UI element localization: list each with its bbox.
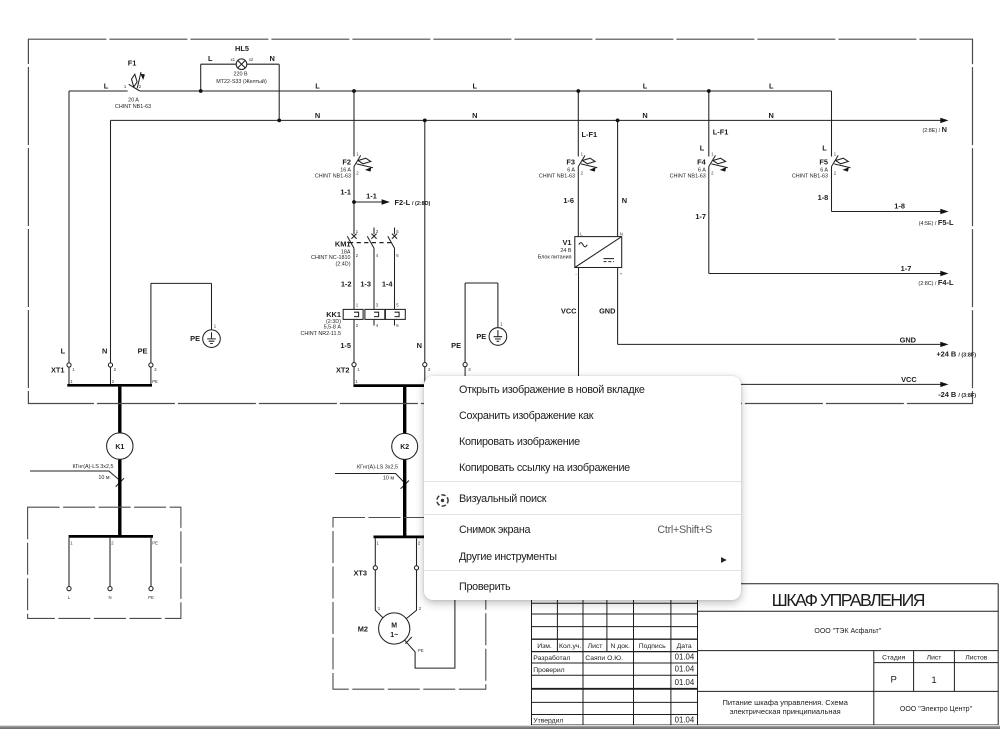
svg-text:6 A: 6 A [698, 167, 706, 173]
svg-text:2: 2 [711, 170, 714, 175]
svg-text:PE: PE [451, 341, 461, 350]
svg-text:3: 3 [376, 303, 379, 308]
svg-text:3: 3 [468, 367, 471, 372]
svg-text:L: L [643, 82, 648, 91]
svg-text:L: L [61, 347, 66, 356]
svg-text:1-7: 1-7 [901, 264, 912, 273]
svg-text:K2: K2 [400, 444, 409, 451]
svg-text:KK1: KK1 [326, 310, 341, 319]
svg-text:ООО "ТЭК Асфальт": ООО "ТЭК Асфальт" [814, 628, 881, 635]
svg-text:(2:8C) / F4-L: (2:8C) / F4-L [918, 278, 954, 287]
svg-text:PE: PE [148, 595, 154, 600]
svg-text:-24 В / (3:8F): -24 В / (3:8F) [938, 390, 976, 399]
svg-text:20 A: 20 A [128, 98, 139, 104]
svg-text:ШКАФ УПРАВЛЕНИЯ: ШКАФ УПРАВЛЕНИЯ [772, 590, 925, 610]
svg-text:1: 1 [356, 229, 359, 234]
svg-text:CHINT NB1-63: CHINT NB1-63 [115, 104, 151, 110]
svg-text:2: 2 [581, 170, 584, 175]
svg-text:F3: F3 [566, 157, 575, 166]
svg-text:x2: x2 [249, 57, 254, 62]
svg-text:Проверил: Проверил [533, 667, 564, 674]
svg-text:5: 5 [396, 303, 399, 308]
svg-text:L: L [580, 232, 583, 237]
svg-text:Блок питания: Блок питания [538, 255, 572, 261]
svg-text:N: N [315, 111, 320, 120]
svg-text:(2:8E) / N: (2:8E) / N [922, 125, 947, 134]
svg-text:L: L [208, 54, 213, 63]
svg-text:5: 5 [396, 229, 399, 234]
svg-text:2: 2 [356, 253, 359, 258]
svg-text:N: N [417, 341, 422, 350]
svg-text:1: 1 [500, 322, 503, 327]
svg-text:1: 1 [357, 367, 360, 372]
svg-text:1-2: 1-2 [341, 280, 352, 289]
svg-text:L-F1: L-F1 [582, 130, 598, 139]
svg-text:2: 2 [356, 170, 359, 175]
svg-text:F1: F1 [128, 59, 137, 68]
svg-text:PE: PE [138, 347, 148, 356]
svg-text:L: L [769, 82, 774, 91]
svg-text:GND: GND [900, 335, 917, 344]
svg-text:1: 1 [581, 151, 584, 156]
svg-text:1: 1 [214, 324, 217, 329]
svg-text:(4:5E) / F5-L: (4:5E) / F5-L [919, 218, 954, 227]
svg-text:3: 3 [154, 367, 157, 372]
svg-text:1: 1 [356, 303, 359, 308]
svg-text:6: 6 [396, 253, 399, 258]
svg-text:2: 2 [418, 540, 421, 545]
svg-text:10 м: 10 м [98, 475, 109, 481]
svg-text:4: 4 [376, 323, 379, 328]
svg-text:+: + [620, 271, 623, 276]
svg-text:L: L [473, 82, 478, 91]
svg-text:220 В: 220 В [233, 72, 247, 78]
svg-text:PE: PE [418, 648, 424, 653]
svg-text:Лист: Лист [927, 655, 942, 662]
svg-text:PE: PE [152, 379, 158, 384]
svg-text:1: 1 [70, 379, 73, 384]
svg-text:-: - [575, 271, 577, 276]
svg-text:N: N [620, 232, 623, 237]
svg-text:1: 1 [931, 675, 936, 686]
svg-text:1: 1 [72, 367, 75, 372]
svg-text:XT3: XT3 [353, 569, 367, 578]
svg-text:Утвердил: Утвердил [533, 717, 563, 724]
svg-text:L-F1: L-F1 [713, 127, 729, 136]
svg-text:Р: Р [891, 674, 897, 685]
svg-text:Подпись: Подпись [639, 643, 666, 650]
svg-text:+24 В / (3:8F): +24 В / (3:8F) [936, 349, 976, 358]
svg-text:L: L [104, 82, 109, 91]
svg-text:1: 1 [834, 151, 837, 156]
svg-text:Дата: Дата [677, 643, 692, 650]
svg-text:L: L [700, 143, 705, 152]
svg-text:1: 1 [377, 540, 380, 545]
svg-text:GND: GND [599, 306, 616, 315]
svg-text:1-5: 1-5 [340, 341, 351, 350]
svg-text:K1: K1 [115, 444, 124, 451]
svg-text:2: 2 [834, 170, 837, 175]
svg-text:1-6: 1-6 [563, 196, 574, 205]
svg-text:1: 1 [711, 151, 714, 156]
svg-text:L: L [315, 82, 320, 91]
svg-text:M2: M2 [358, 625, 368, 634]
svg-text:N: N [769, 111, 774, 120]
svg-text:2: 2 [356, 323, 359, 328]
svg-text:Лист: Лист [588, 643, 603, 650]
svg-text:VCC: VCC [561, 306, 577, 315]
svg-text:5,5-8 А: 5,5-8 А [324, 324, 342, 330]
svg-text:CHINT NB1-63: CHINT NB1-63 [315, 174, 351, 180]
svg-text:V1: V1 [562, 238, 571, 247]
svg-text:Листов: Листов [965, 655, 987, 662]
svg-text:N: N [472, 111, 477, 120]
svg-text:1-1: 1-1 [340, 188, 351, 197]
svg-text:MT22-S33 (Желтый): MT22-S33 (Желтый) [216, 78, 267, 85]
svg-text:2: 2 [112, 379, 115, 384]
svg-text:1: 1 [70, 541, 73, 546]
svg-text:КГнг(А)-LS 3x2,5: КГнг(А)-LS 3x2,5 [73, 464, 114, 470]
svg-text:2: 2 [419, 606, 422, 611]
svg-text:1-3: 1-3 [360, 280, 371, 289]
svg-text:КГнг(А)-LS 3x2,5: КГнг(А)-LS 3x2,5 [357, 465, 398, 471]
svg-text:1-7: 1-7 [695, 212, 706, 221]
svg-text:N док.: N док. [610, 643, 630, 650]
svg-text:01.04: 01.04 [675, 715, 695, 724]
svg-text:CHINT NB1-63: CHINT NB1-63 [539, 174, 575, 180]
svg-text:L: L [68, 595, 71, 600]
svg-text:16 A: 16 A [340, 167, 351, 173]
svg-text:N: N [622, 196, 627, 205]
svg-text:PE: PE [152, 541, 158, 546]
svg-text:1-1: 1-1 [366, 192, 377, 201]
svg-text:CHINT NB1-63: CHINT NB1-63 [792, 174, 828, 180]
svg-text:1: 1 [124, 84, 127, 89]
svg-text:М: М [391, 622, 397, 629]
svg-text:F5: F5 [819, 157, 828, 166]
svg-text:01.04: 01.04 [675, 653, 695, 662]
svg-text:Саяпи О.Ю.: Саяпи О.Ю. [585, 655, 623, 662]
svg-text:2: 2 [114, 367, 117, 372]
svg-text:KM1: KM1 [335, 240, 351, 249]
svg-text:CHINT NB1-63: CHINT NB1-63 [670, 174, 706, 180]
svg-text:(2:4D): (2:4D) [336, 261, 351, 267]
svg-text:1: 1 [378, 606, 381, 611]
svg-text:XT2: XT2 [336, 366, 350, 375]
svg-text:01.04: 01.04 [675, 678, 695, 687]
svg-text:10 м: 10 м [383, 475, 394, 481]
svg-text:4: 4 [376, 253, 379, 258]
svg-text:2: 2 [111, 541, 114, 546]
svg-text:N: N [102, 347, 107, 356]
svg-text:Кол.уч.: Кол.уч. [559, 643, 581, 650]
svg-text:6: 6 [396, 323, 399, 328]
svg-text:2: 2 [139, 84, 142, 89]
svg-text:F4: F4 [697, 157, 707, 166]
svg-text:24 В: 24 В [560, 248, 571, 254]
svg-text:1-4: 1-4 [382, 280, 394, 289]
svg-text:PE: PE [476, 332, 486, 341]
svg-text:XT1: XT1 [51, 366, 65, 375]
svg-text:Стадия: Стадия [882, 655, 905, 662]
svg-text:1: 1 [355, 379, 358, 384]
svg-text:Изм.: Изм. [537, 643, 552, 650]
svg-text:F2: F2 [342, 157, 351, 166]
svg-text:CHINT NC-1810: CHINT NC-1810 [311, 255, 350, 261]
svg-text:01.04: 01.04 [675, 665, 695, 674]
svg-text:1-8: 1-8 [818, 193, 829, 202]
svg-text:VCC: VCC [901, 375, 917, 384]
svg-text:3: 3 [376, 229, 379, 234]
svg-text:L: L [822, 143, 827, 152]
svg-text:1~: 1~ [390, 632, 398, 639]
svg-text:1: 1 [356, 151, 359, 156]
svg-text:x1: x1 [231, 57, 236, 62]
svg-text:N: N [108, 595, 111, 600]
svg-text:N: N [270, 54, 275, 63]
svg-text:HL5: HL5 [235, 44, 249, 53]
svg-text:электрическая принципиальная: электрическая принципиальная [730, 707, 841, 716]
svg-text:CHINT NR2-11.5: CHINT NR2-11.5 [300, 331, 341, 337]
svg-text:PE: PE [190, 334, 200, 343]
svg-text:Разработал: Разработал [533, 654, 570, 662]
svg-text:1-8: 1-8 [894, 202, 905, 211]
svg-text:6 A: 6 A [820, 167, 828, 173]
svg-text:2: 2 [428, 367, 431, 372]
svg-text:6 A: 6 A [567, 167, 575, 173]
svg-text:Питание шкафа управления. Схем: Питание шкафа управления. Схема [722, 698, 848, 707]
svg-text:ООО "Электро Центр": ООО "Электро Центр" [900, 706, 973, 713]
svg-text:N: N [642, 111, 647, 120]
